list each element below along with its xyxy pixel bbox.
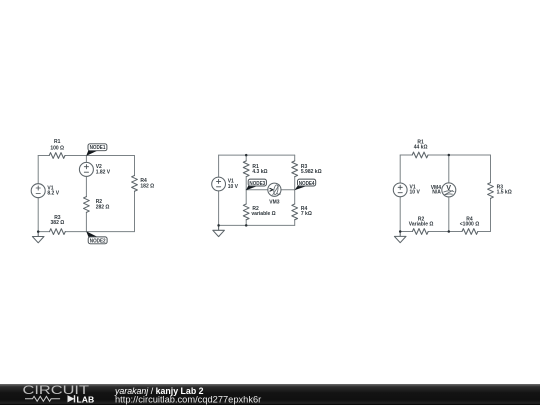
ground (circuit 1) (32, 232, 44, 243)
resistor R4 (circuit 3) (462, 229, 478, 235)
svg-text:LAB: LAB (77, 394, 95, 404)
logo diode (68, 395, 75, 402)
node NODE1 flag (86, 144, 107, 156)
voltage source V2 (79, 162, 93, 176)
svg-text:1.5 kΩ: 1.5 kΩ (497, 190, 512, 196)
resistor R2 (circuit 3) (412, 229, 428, 235)
voltmeter VM4 (442, 183, 456, 197)
svg-text:NODE2: NODE2 (90, 238, 106, 244)
svg-text:182 Ω: 182 Ω (140, 184, 154, 190)
wire: top rail segments around R1 (400, 154, 490, 156)
node NODE4 flag (294, 179, 315, 190)
junction dot (448.8,231.5) (448, 230, 451, 233)
wire: bottom rail segments around R2 and R4 (400, 231, 490, 233)
wire: right branch R4 leads (134, 156, 136, 232)
svg-text:NODE4: NODE4 (299, 181, 315, 187)
junction dot (218.6,225.4) (217, 224, 220, 227)
voltmeter VM3 (268, 183, 281, 196)
wire: bottom rail (219, 224, 295, 226)
node NODE3 flag (246, 179, 267, 190)
resistor R4 (circuit 2) (292, 204, 298, 220)
svg-text:Variable Ω: Variable Ω (409, 221, 434, 227)
svg-text:NODE1: NODE1 (90, 145, 106, 151)
resistor R3 (circuit 3) (488, 183, 494, 199)
svg-text:<1000 Ω: <1000 Ω (460, 221, 479, 227)
logo resistor zigzag (25, 396, 60, 401)
voltage source V1 (circuit 3) (393, 183, 407, 197)
junction dot (38.2,231.6) (37, 230, 40, 233)
wire: left V1 leads (218, 155, 220, 225)
footer bar (0, 384, 540, 405)
svg-text:7 kΩ: 7 kΩ (301, 211, 312, 217)
wire: left vertical top (V1 to top rail) (37, 156, 39, 184)
voltage source V1 (circuit 2) (212, 177, 226, 191)
resistor R2 (84, 197, 90, 213)
wire: VM3 horizontal (246, 189, 295, 191)
svg-text:382 Ω: 382 Ω (51, 220, 65, 226)
voltage source V1 (31, 184, 45, 198)
node NODE2 flag (86, 231, 107, 244)
ground (circuit 2) (213, 225, 225, 236)
wire: left vertical bottom (V1 to bottom rail) (37, 198, 39, 232)
svg-text:100 Ω: 100 Ω (50, 145, 64, 151)
junction dot (246.2,155.1) (245, 154, 248, 157)
wire: middle branch V2 leads (85, 156, 87, 197)
wire: left V1 leads (399, 155, 401, 232)
wire: bottom rail segments around R3 (38, 231, 134, 233)
svg-text:10 V: 10 V (410, 190, 421, 196)
svg-text:8.2 V: 8.2 V (47, 190, 59, 196)
junction dot (448.8,155) (448, 154, 451, 157)
wire: top rail segments around R1 (38, 155, 134, 157)
resistor R1 (circuit 3) (412, 152, 428, 158)
svg-text:44 kΩ: 44 kΩ (414, 145, 428, 151)
ground (circuit 3) (394, 232, 406, 243)
wire: mid branch R1 leads (245, 155, 247, 190)
resistor R3 (circuit 2) (292, 161, 298, 177)
svg-text:5.982 kΩ: 5.982 kΩ (301, 169, 322, 175)
wire: middle branch below R2 (85, 212, 87, 231)
wire: top rail (219, 154, 295, 156)
svg-text:282 Ω: 282 Ω (96, 205, 110, 211)
junction dot (400.2,231.5) (399, 230, 402, 233)
svg-text:variable Ω: variable Ω (251, 211, 275, 217)
wire: middle VM4 leads (448, 155, 450, 232)
resistor R1 (circuit 2) (243, 161, 249, 177)
resistor R4 (132, 176, 138, 192)
wire: right branch R3 leads (490, 155, 492, 232)
svg-text:10 V: 10 V (228, 184, 239, 190)
svg-text:V: V (446, 183, 451, 192)
resistor R3 (50, 229, 66, 235)
wire: right branch R3 leads (294, 155, 296, 190)
resistor R1 (49, 153, 65, 159)
svg-text:N/A: N/A (432, 190, 441, 196)
wire: mid branch R2 leads (245, 190, 247, 226)
svg-text:4.3 kΩ: 4.3 kΩ (252, 169, 267, 175)
svg-text:1.82 V: 1.82 V (96, 170, 111, 176)
resistor R2 (circuit 2) (243, 204, 249, 220)
svg-text:VM3: VM3 (269, 199, 280, 205)
wire: right branch R4 leads (294, 190, 296, 226)
svg-text:http://circuitlab.com/cqd277ep: http://circuitlab.com/cqd277epxhk6r (115, 395, 261, 405)
junction dot (246.2,225.4) (245, 224, 248, 227)
svg-text:R1: R1 (54, 139, 61, 145)
svg-text:NODE3: NODE3 (249, 181, 265, 187)
